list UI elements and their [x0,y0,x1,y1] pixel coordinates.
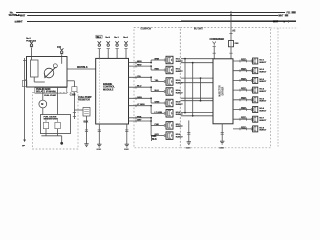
svg-text:RED: RED [241,88,246,91]
wire F1 to relay [31,48,33,57]
pin ticks inj 1 [163,59,165,62]
connector tick below F1 [30,46,33,48]
svg-text:GRN: GRN [137,97,142,99]
injector INJ7 [166,122,173,129]
svg-text:GRY: GRY [137,120,142,122]
wire lattice h7 [181,112,213,114]
svg-text:M: M [41,103,43,106]
wire driver to INJ12 [233,89,251,91]
injector INJ10 [253,68,258,74]
wire down x74 [73,81,75,87]
svg-text:PNK: PNK [137,116,142,118]
wire ECM gnd 2 [126,124,128,144]
wire jog 8 [150,121,152,136]
tick ECM out 2 [135,65,137,68]
wire lattice gnd [188,120,190,141]
tick ECM out 1 [135,61,137,64]
tick ECM out 3 [135,76,137,79]
pin ticks r1 [250,60,252,63]
fuse F2 [60,48,63,51]
svg-text:RED: RED [241,126,246,129]
wire lattice h5 [181,97,213,99]
pin ticks r3 [250,79,252,82]
tick cond2 [213,52,216,54]
dashed top edge C [271,27,297,29]
svg-text:INJECT: INJECT [176,136,184,138]
svg-text:INJECT: INJECT [259,91,267,93]
wire jog 6 [150,106,152,114]
injector INJ13 [253,97,258,103]
condenser tick [213,45,216,47]
wire lattice h3 [181,77,213,79]
wire rail 2 [16,15,278,17]
tick ECM out 8 [135,120,137,123]
svg-text:PNK: PNK [155,124,160,126]
tick driver gnd [221,132,224,134]
ground ECM 2 [125,143,129,145]
wire driver to INJ9 [233,60,251,62]
wire lattice h2 [181,62,213,64]
wire rail 3a branch [181,19,296,21]
fuse FM4 [124,41,127,44]
injector INJ15 [253,116,258,122]
wire join pump gnd [41,135,61,137]
pin ticks inj 8 [163,134,165,137]
ticks wire 9 [239,60,241,63]
injector INJ3 [166,78,173,86]
svg-text:WHT: WHT [20,14,26,17]
svg-text:RED: RED [241,117,246,120]
fuse row boxed label [96,35,102,38]
svg-text:BLK: BLK [152,138,157,141]
wire FM3 to ECM [116,49,118,58]
svg-text:LT GRN: LT GRN [137,104,145,106]
tick fuse2 [229,52,232,54]
injector INJ6 [166,110,173,118]
connector tick FM2 [107,47,110,49]
wire driver to INJ16 [233,128,251,130]
svg-text:RED: RED [155,69,160,71]
injector INJ9 [253,58,258,64]
wire condenser down [213,47,215,54]
wire ECM out 8 [129,120,152,122]
svg-text:GRN: GRN [155,102,160,104]
pin ticks r4 [250,89,252,92]
wire rail 3 [27,21,296,23]
ground G101 [84,143,88,145]
fuse FM2 [107,41,110,44]
pin ticks r6 [250,108,252,111]
driver box U1 [213,59,233,124]
wire lattice h1 [181,58,213,60]
pin ticks inj 4 [163,90,165,93]
connector box left [22,81,27,87]
connector tick FM3 [116,47,119,49]
wire sub1 down [45,129,47,136]
wire lattice h8 [181,115,213,117]
wire lattice v2 [192,63,194,116]
svg-text:BLU: BLU [155,90,160,92]
wire relay to pump [42,87,44,100]
svg-text:INJECTOR: INJECTOR [220,85,222,97]
injector INJ16 [253,126,258,132]
tick lattice gnd [187,132,190,134]
wire FM1 to ECM [98,49,100,58]
relay RY1 contact dot [53,64,57,68]
relay internal wire [33,77,35,82]
tick left branch [23,60,26,62]
wire ECM out 6 [129,105,152,107]
svg-text:RED: RED [241,68,246,71]
wire lattice h6 [181,100,213,102]
pin ticks inj 2 [163,69,165,72]
condenser [213,42,216,46]
svg-text:INJ UNIT: INJ UNIT [194,28,204,30]
svg-text:WHT: WHT [278,15,284,17]
wire jog 5 [150,98,152,103]
svg-text:BLU: BLU [137,86,142,88]
ECM box [96,58,129,124]
pin ticks inj 5 [163,102,165,105]
fuel pump dashed box [32,93,78,150]
ground pump internal [60,142,63,145]
relay RY1 box [27,57,68,88]
wire jog 3 [150,77,152,81]
wire FM2 to ECM [107,49,109,58]
dashed line right C [277,28,279,148]
wire top feed [230,11,232,41]
fuel pump motor circle [39,100,47,108]
svg-text:RELAY 1 (FI MAIN): RELAY 1 (FI MAIN) [36,91,56,94]
wire into driver top [213,54,215,59]
rail 2 label on wire [20,14,28,16]
wire lattice v3 [200,78,202,101]
svg-text:BRN: BRN [155,59,160,61]
fuel unit sub box 1 [43,122,48,128]
injector INJ8 [166,132,173,140]
tick ECM gnd 2 [125,129,128,131]
svg-text:INJECT: INJECT [176,71,184,73]
injector INJ2 [166,66,173,74]
svg-text:WHT/BLK: WHT/BLK [9,14,20,17]
ticks wire 16 [239,128,241,131]
ground ECM 1 [97,143,101,145]
svg-text:RESISTOR: RESISTOR [78,98,90,101]
wire ECM out 3 [129,76,152,78]
wire resistor down [86,116,88,144]
fuse FM1 [98,41,101,44]
svg-text:C105: C105 [70,94,76,97]
svg-text:FUEL PUMP: FUEL PUMP [44,95,57,97]
wire relay to unit 2 [57,87,59,115]
injector INJ11 [253,77,258,83]
svg-text:INJECT: INJECT [259,72,267,74]
connector tick below F2 [60,53,63,55]
wire driver to INJ14 [233,109,251,111]
svg-text:WHT: WHT [273,21,279,23]
wire ECM out 1 [129,62,152,64]
svg-text:RED: RED [241,78,246,81]
fuse FM3 [115,41,118,44]
pin ticks r2 [250,69,252,72]
fuel unit internal wire [46,118,58,120]
wire rail 1 (hot feed) [16,12,285,14]
wire ECM out 4 [129,86,152,88]
tick ECM out 4 [135,86,137,89]
wire ECM out 7 [129,117,152,119]
wire lattice h4 [181,82,213,84]
ticks wire 11 [239,79,241,82]
ticks wire 13 [239,98,241,101]
svg-text:INJECT: INJECT [259,130,267,132]
svg-text:LT GRN: LT GRN [155,112,163,114]
pin ticks inj 3 [163,80,165,83]
svg-text:INJECT: INJECT [259,120,267,122]
wire pump to unit [42,108,44,115]
wire jog 4 [150,87,152,91]
wire ECM out 5 [129,97,152,99]
off-page arrow [23,140,26,143]
svg-text:INJECT: INJECT [176,104,184,106]
svg-text:CONDENSER: CONDENSER [210,38,225,41]
svg-text:DRIVER: DRIVER [223,86,225,95]
pin ticks inj 7 [163,124,165,127]
wire resistor in [74,109,83,111]
wire relay to ECM [67,68,96,70]
tick ECM out 6 [135,104,137,107]
svg-text:INJECT: INJECT [259,62,267,64]
injector INJ4 [166,88,173,96]
injector INJ5 [166,99,173,107]
injector INJ12 [253,87,258,93]
pin ticks inj 6 [163,112,165,115]
wire FM4 to ECM [125,49,127,58]
wire lattice v1 [184,59,186,113]
svg-text:INJECT: INJECT [176,92,184,94]
resistor box [83,108,90,117]
wire driver to INJ15 [233,118,251,120]
wire F2 to relay [61,54,63,56]
svg-text:FUSE 30A: FUSE 30A [26,40,36,43]
fuse F1 [30,41,33,44]
wire relay left branch [25,79,27,81]
svg-text:INJECT: INJECT [259,81,267,83]
tick feed [229,33,232,35]
wire jog 2 [150,66,152,70]
svg-text:RED: RED [137,65,142,67]
svg-text:RED: RED [241,97,246,100]
connector tick FM1 [98,47,101,49]
svg-text:(+)WHT: (+)WHT [15,20,24,23]
wire ECM gnd 1 [98,124,100,144]
injector INJ1 [166,56,173,64]
relay label box [35,88,67,94]
wire driver to INJ11 [233,79,251,81]
wire driver gnd [221,124,223,141]
svg-text:MODULE: MODULE [103,88,114,91]
ticks wire 10 [239,69,241,72]
ticks wire 14 [239,108,241,111]
svg-text:RED: RED [241,58,246,61]
fuel unit inner box [41,115,71,134]
ECM internal dashed [99,58,101,124]
ticks wire 15 [239,118,241,121]
relay RY1 coil rect [31,60,39,77]
tick ECM out 7 [135,116,137,119]
connector C105 [72,87,77,92]
wire driver to INJ13 [233,99,251,101]
wire relay lower branch [67,80,74,82]
dashed box B (injector unit) [180,27,270,147]
svg-text:INJECT: INJECT [259,110,267,112]
svg-text:INJECT: INJECT [176,126,184,128]
svg-text:WHT/BLK: WHT/BLK [77,66,88,69]
injector INJ14 [253,107,258,113]
ground lattice [187,141,191,143]
pin ticks r8 [250,128,252,131]
fuse FB box [229,41,234,47]
wire driver to INJ10 [233,70,251,72]
pin ticks r5 [250,98,252,101]
wire jog 7 [150,118,152,126]
tick ECM out 5 [135,97,137,100]
svg-text:BLK: BLK [84,120,89,123]
pin ticks r7 [250,118,252,121]
wire fuse down [230,47,232,54]
ticks wire 12 [239,89,241,92]
wire ECM out 2 [129,65,152,67]
svg-text:ECM/PCM: ECM/PCM [141,28,151,30]
tick ECM gnd 1 [98,129,101,131]
relay RY1 contact circle [44,68,54,78]
connector tick FM4 [124,47,127,49]
fuel unit sub box 2 [55,122,60,128]
svg-text:BRN: BRN [137,61,142,63]
relay RY1 switch arm [45,67,56,78]
wire jog 1 [150,60,152,63]
svg-text:RED: RED [241,107,246,110]
dashed box A (ECM harness) [134,27,180,147]
svg-text:INJECT: INJECT [259,101,267,103]
ground driver [220,140,224,142]
wire mid bottom [151,136,153,141]
